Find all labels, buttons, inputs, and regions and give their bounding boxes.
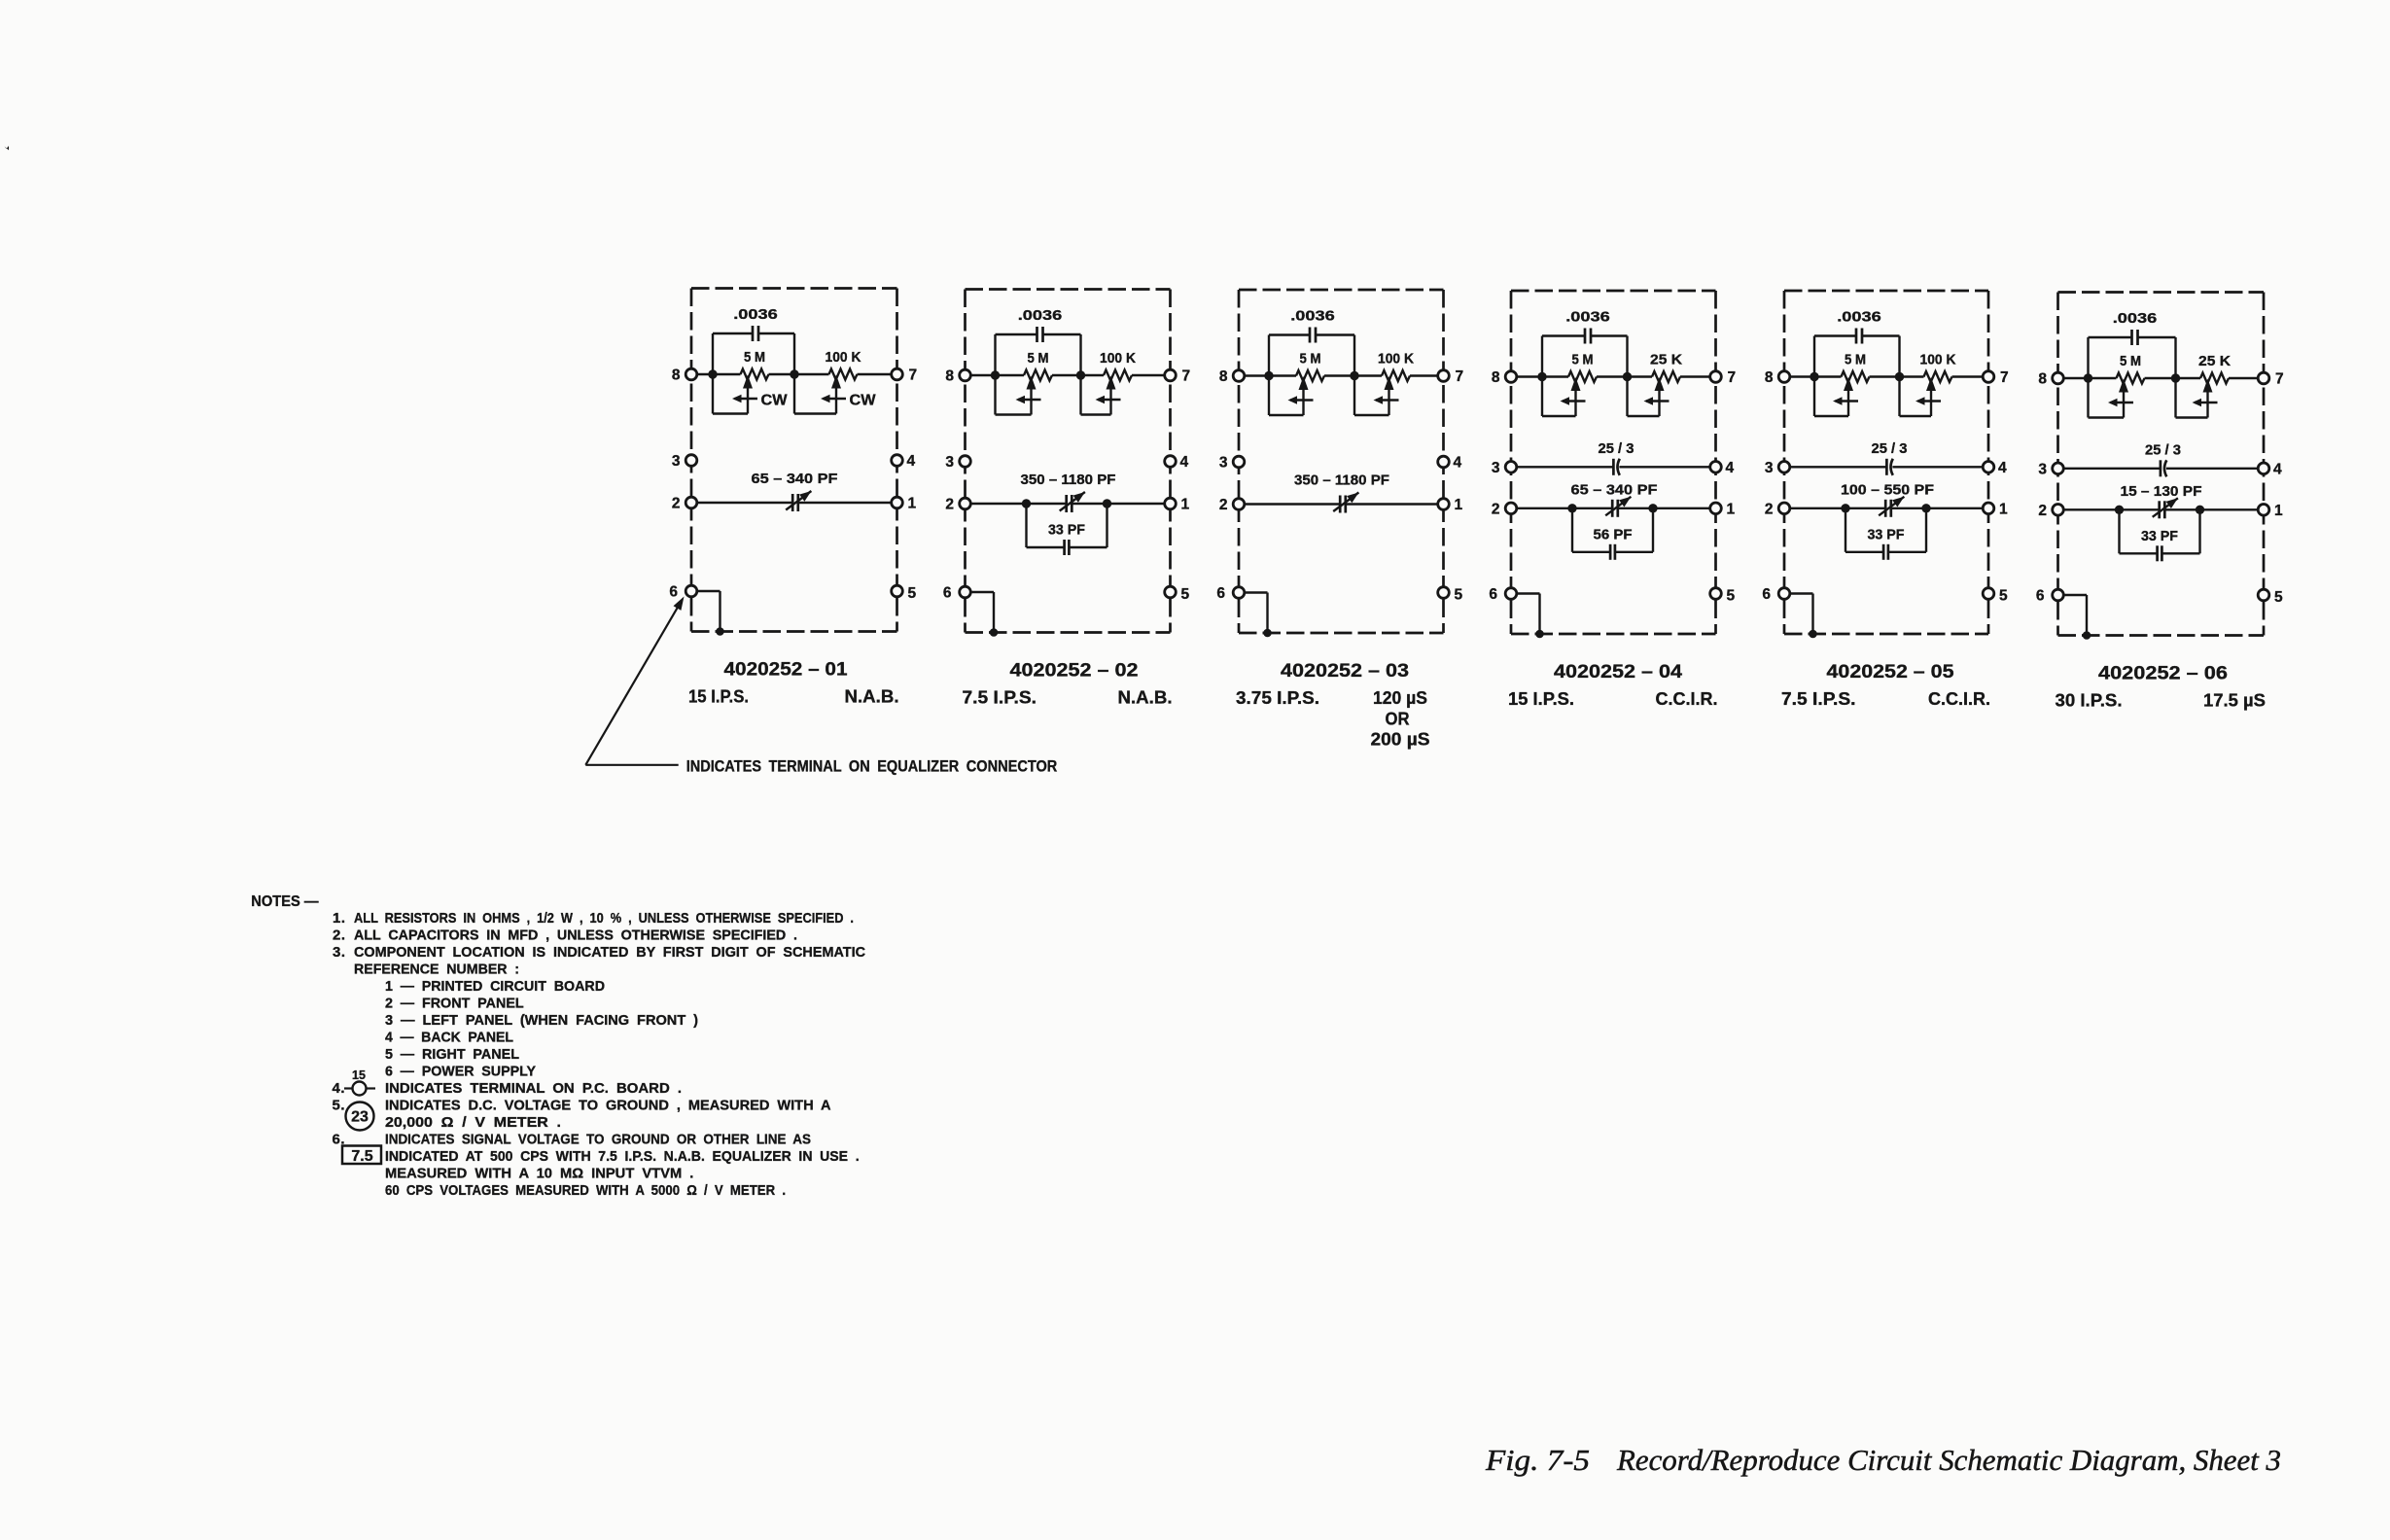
svg-text:.0036: .0036 [2113,310,2158,327]
svg-text:65 – 340 PF: 65 – 340 PF [1571,481,1658,498]
svg-text:5 M: 5 M [1845,352,1866,368]
svg-text:3: 3 [1765,460,1774,476]
svg-text:2: 2 [1492,501,1500,517]
svg-text:100 – 550 PF: 100 – 550 PF [1841,481,1934,498]
svg-text:2 — FRONT PANEL: 2 — FRONT PANEL [385,996,524,1012]
svg-text:23: 23 [351,1109,369,1126]
svg-text:65 – 340 PF: 65 – 340 PF [752,471,838,487]
svg-text:OR: OR [1386,710,1410,729]
svg-text:15 – 130 PF: 15 – 130 PF [2121,483,2202,500]
svg-text:4020252 – 04: 4020252 – 04 [1554,661,1682,682]
svg-text:2: 2 [672,496,681,512]
svg-text:15 I.P.S.: 15 I.P.S. [688,687,749,707]
svg-text:1: 1 [1727,501,1736,517]
svg-text:8: 8 [945,368,954,385]
svg-text:7: 7 [1728,369,1737,386]
svg-text:8: 8 [1219,368,1228,385]
svg-text:30 I.P.S.: 30 I.P.S. [2056,691,2123,711]
svg-text:4: 4 [1726,460,1735,476]
svg-text:100 K: 100 K [1378,351,1414,367]
svg-text:3: 3 [1219,455,1228,472]
svg-text:INDICATES TERMINAL ON P.C. BOA: INDICATES TERMINAL ON P.C. BOARD . [385,1080,682,1097]
svg-text:25 K: 25 K [2198,353,2231,369]
svg-text:4020252 – 05: 4020252 – 05 [1827,661,1954,682]
svg-text:5 M: 5 M [1028,350,1049,367]
svg-text:7.5: 7.5 [351,1148,372,1165]
svg-text:INDICATED AT 500 CPS WITH 7.5: INDICATED AT 500 CPS WITH 7.5 I.P.S. N.A… [385,1148,860,1165]
svg-text:ALL RESISTORS IN OHMS , 1/2 W: ALL RESISTORS IN OHMS , 1/2 W , 10 % , U… [354,910,854,927]
svg-text:4: 4 [1180,454,1189,471]
svg-text:3: 3 [1492,460,1500,476]
svg-text:REFERENCE NUMBER :: REFERENCE NUMBER : [354,962,519,978]
svg-text:7: 7 [909,367,918,384]
svg-text:200 µS: 200 µS [1371,730,1430,750]
svg-text:5: 5 [1999,588,2008,605]
svg-text:2: 2 [2038,503,2047,519]
svg-text:8: 8 [1492,369,1500,386]
svg-text:5 M: 5 M [2120,353,2141,369]
svg-text:1 — PRINTED CIRCUIT BOARD: 1 — PRINTED CIRCUIT BOARD [385,978,605,995]
svg-text:5 M: 5 M [744,349,765,366]
svg-text:4: 4 [907,453,916,470]
svg-text:3: 3 [672,453,681,470]
svg-text:1: 1 [1181,497,1190,513]
svg-text:.0036: .0036 [1837,309,1881,326]
svg-text:15: 15 [352,1068,366,1082]
svg-text:Record/Reproduce Circuit Sch: Record/Reproduce Circuit Schematic Diagr… [1616,1443,2281,1477]
svg-text:5: 5 [1455,587,1463,604]
svg-text:5: 5 [908,585,917,602]
svg-text:N.A.B.: N.A.B. [1118,688,1173,708]
svg-text:C.C.I.R.: C.C.I.R. [1928,689,1990,709]
svg-text:56 PF: 56 PF [1594,526,1633,542]
svg-text:7: 7 [1456,368,1464,385]
svg-text:4: 4 [1454,455,1462,472]
svg-text:8: 8 [2038,371,2047,388]
svg-text:4 — BACK PANEL: 4 — BACK PANEL [385,1030,513,1046]
svg-text:C.C.I.R.: C.C.I.R. [1656,689,1718,709]
svg-text:4: 4 [1998,460,2007,476]
svg-text:8: 8 [672,367,681,384]
svg-text:.0036: .0036 [733,306,778,323]
svg-text:1: 1 [1455,497,1463,513]
svg-text:5: 5 [1727,588,1736,605]
svg-text:2: 2 [945,497,954,513]
svg-text:25 / 3: 25 / 3 [1872,440,1908,457]
svg-text:.0036: .0036 [1018,307,1063,324]
svg-text:3.75 I.P.S.: 3.75 I.P.S. [1236,688,1319,708]
svg-text:20,000 Ω / V METER .: 20,000 Ω / V METER . [385,1114,561,1131]
svg-text:7: 7 [1182,368,1191,385]
svg-text:5: 5 [1181,586,1190,603]
svg-text:5 M: 5 M [1572,352,1594,368]
svg-text:33 PF: 33 PF [2141,528,2178,544]
svg-text:6 — POWER SUPPLY: 6 — POWER SUPPLY [385,1064,536,1080]
svg-text:4: 4 [2273,461,2282,477]
svg-text:1.: 1. [333,910,346,927]
svg-text:6: 6 [1762,586,1771,603]
svg-text:4020252 – 02: 4020252 – 02 [1010,660,1139,682]
svg-text:6: 6 [2036,588,2045,605]
svg-text:MEASURED WITH A 10 MΩ INPUT VT: MEASURED WITH A 10 MΩ INPUT VTVM . [385,1166,693,1182]
svg-text:6: 6 [1216,585,1225,602]
svg-text:Fig. 7-5: Fig. 7-5 [1485,1443,1590,1477]
svg-text:350 – 1180 PF: 350 – 1180 PF [1021,472,1116,488]
svg-text:1: 1 [2274,503,2283,519]
svg-text:3: 3 [945,454,954,471]
svg-text:CW: CW [761,393,789,409]
svg-text:NOTES —: NOTES — [251,893,319,910]
svg-text:3.: 3. [333,944,346,961]
svg-text:33 PF: 33 PF [1868,526,1905,542]
svg-text:5 — RIGHT PANEL: 5 — RIGHT PANEL [385,1046,519,1063]
svg-text:2: 2 [1219,497,1228,513]
svg-text:N.A.B.: N.A.B. [845,687,899,707]
svg-text:6: 6 [943,585,952,602]
svg-text:COMPONENT LOCATION IS INDICATE: COMPONENT LOCATION IS INDICATED BY FIRST… [354,944,865,961]
svg-text:7.5 I.P.S.: 7.5 I.P.S. [1781,689,1856,709]
svg-text:INDICATES TERMINAL ON EQUALIZE: INDICATES TERMINAL ON EQUALIZER CONNECTO… [686,756,1058,775]
svg-text:5.: 5. [333,1098,346,1114]
svg-text:4020252 – 01: 4020252 – 01 [724,659,848,681]
svg-text:3 — LEFT PANEL (WHEN FACING FR: 3 — LEFT PANEL (WHEN FACING FRONT ) [385,1012,698,1029]
svg-text:4020252 – 06: 4020252 – 06 [2098,663,2228,684]
svg-text:7: 7 [2000,369,2009,386]
svg-text:100 K: 100 K [1100,350,1136,367]
svg-text:60 CPS VOLTAGES MEASURED WITH: 60 CPS VOLTAGES MEASURED WITH A 5000 Ω /… [385,1182,786,1199]
svg-text:2.: 2. [333,927,346,944]
svg-text:7: 7 [2275,371,2284,388]
svg-text:25 K: 25 K [1650,352,1682,368]
svg-text:33 PF: 33 PF [1048,522,1085,539]
svg-text:1: 1 [1999,501,2008,517]
svg-text:25 / 3: 25 / 3 [2145,441,2181,458]
svg-text:17.5 µS: 17.5 µS [2203,691,2266,711]
svg-text:7.5 I.P.S.: 7.5 I.P.S. [963,688,1037,708]
svg-text:INDICATES D.C. VOLTAGE TO GROU: INDICATES D.C. VOLTAGE TO GROUND , MEASU… [385,1098,831,1114]
svg-text:120 µS: 120 µS [1373,688,1427,708]
svg-text:2: 2 [1765,501,1774,517]
svg-text:4020252 – 03: 4020252 – 03 [1281,660,1409,682]
svg-text:1: 1 [908,496,917,512]
svg-text:15 I.P.S.: 15 I.P.S. [1508,689,1574,709]
svg-text:INDICATES SIGNAL VOLTAGE TO GR: INDICATES SIGNAL VOLTAGE TO GROUND OR OT… [385,1132,811,1148]
svg-text:100 K: 100 K [1920,352,1956,368]
svg-text:100 K: 100 K [826,349,861,366]
svg-text:8: 8 [1765,369,1774,386]
svg-text:350 – 1180 PF: 350 – 1180 PF [1294,472,1389,489]
svg-text:.0036: .0036 [1565,309,1610,326]
svg-text:6: 6 [1489,586,1497,603]
svg-text:3: 3 [2038,461,2047,477]
svg-text:4.: 4. [333,1080,346,1097]
svg-text:6: 6 [669,584,678,601]
svg-text:CW: CW [850,393,877,409]
svg-text:5 M: 5 M [1300,351,1321,367]
svg-text:25 / 3: 25 / 3 [1599,440,1634,457]
svg-text:.0036: .0036 [1290,308,1335,325]
svg-text:ALL CAPACITORS IN MFD , UNLESS: ALL CAPACITORS IN MFD , UNLESS OTHERWISE… [354,927,797,944]
svg-text:5: 5 [2274,589,2283,606]
